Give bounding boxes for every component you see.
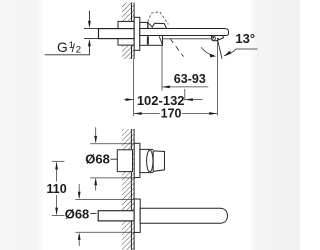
concealed square body bottom view xyxy=(117,150,132,172)
svg-text:110: 110 xyxy=(47,182,67,196)
spout under line xyxy=(163,38,212,40)
angle arc left xyxy=(201,47,214,55)
outlet extension to 170 already drawn; dim line 170 xyxy=(134,113,217,115)
dim bottom d68 upper arrow xyxy=(78,184,80,198)
supply pipe rect top view xyxy=(99,29,135,39)
svg-text:2: 2 xyxy=(76,45,81,56)
G 1/2 top arrow xyxy=(88,11,90,22)
lever handle dashed alt position xyxy=(148,12,169,25)
handle dome ellipse xyxy=(147,150,153,172)
wall face line outer bottom view xyxy=(133,129,135,250)
leader dash d68 bottom xyxy=(90,212,96,214)
supply pipe bottom view xyxy=(98,211,134,221)
arrow 170 right xyxy=(209,112,217,115)
extension line handle front xyxy=(161,45,163,90)
wall hatching bottom view xyxy=(122,129,134,250)
dim 110 top tick xyxy=(52,160,65,162)
dim 110 line xyxy=(56,163,58,215)
flange escutcheon top view xyxy=(134,17,140,50)
angle arrow left xyxy=(210,54,217,58)
wall face line outer top view xyxy=(133,3,135,60)
svg-text:13°: 13° xyxy=(235,31,255,46)
handle cylinder xyxy=(140,149,153,172)
spout escutcheon bottom view xyxy=(134,199,140,232)
supply nipple thin lines xyxy=(84,29,99,39)
svg-text:G: G xyxy=(57,40,68,55)
concealed body block top view xyxy=(118,21,134,45)
dashed diagonal under spout xyxy=(170,39,184,57)
body diagonal xyxy=(159,36,162,45)
dim bottom d68 lower arrow xyxy=(78,234,80,246)
angle arrow right xyxy=(224,51,231,56)
cartridge cap xyxy=(140,22,148,28)
svg-text:Ø68: Ø68 xyxy=(65,206,90,221)
ext line bottom d68 upper xyxy=(75,199,134,201)
dim 102-132 right arrow xyxy=(185,99,203,101)
dim top d68: lower arrow xyxy=(95,179,97,191)
leader dash d68 top xyxy=(111,158,118,160)
handle escutcheon bottom view xyxy=(134,143,140,177)
water stream 13 deg line xyxy=(218,41,222,59)
extension line mid xyxy=(184,89,186,101)
svg-text:170: 170 xyxy=(161,106,182,120)
spout tube bottom view xyxy=(140,208,227,223)
wall face line inner top view xyxy=(131,3,133,60)
angle arc right with leader xyxy=(224,49,258,56)
G 1/2 leader underline xyxy=(45,54,90,56)
ext line top d68 upper xyxy=(90,143,134,145)
dim 102-132 left arrow xyxy=(124,99,133,101)
under-deck valve body xyxy=(140,36,163,46)
aerator inner ellipse xyxy=(211,35,216,40)
svg-text:63-93: 63-93 xyxy=(174,72,206,86)
dim top d68: upper arrow xyxy=(95,127,97,142)
dim line 63-93 xyxy=(162,86,208,88)
outlet extension line xyxy=(217,41,219,116)
G 1/2 bottom arrow xyxy=(88,46,90,55)
wall extension line xyxy=(133,59,135,117)
arrow 63-93 left xyxy=(162,86,170,89)
wall face line inner bottom view xyxy=(130,129,132,250)
dim 110 bottom tick xyxy=(52,215,65,217)
spout bar xyxy=(140,29,229,36)
svg-text:Ø68: Ø68 xyxy=(85,151,110,166)
ext line bottom d68 lower xyxy=(75,231,134,233)
arrow 170 left xyxy=(134,112,142,115)
aerator xyxy=(211,36,223,41)
wall hatching top view xyxy=(122,3,134,60)
handle grip xyxy=(153,151,164,172)
ext line top d68 lower xyxy=(90,177,134,179)
lever handle solid xyxy=(148,23,167,29)
body dark notch xyxy=(147,36,149,44)
dim 110 arrows xyxy=(55,162,58,169)
